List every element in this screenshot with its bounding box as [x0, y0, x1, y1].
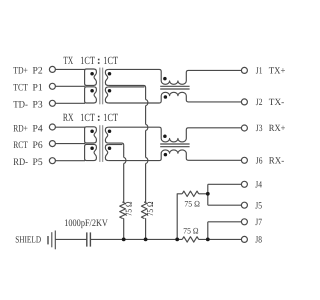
resistor R3 75 ohm (J4/J5 termination): [182, 191, 199, 196]
wire TX secondary bottom + choke L1 bottom winding + wire to J2: [109, 92, 242, 103]
wire rail to J8: [199, 238, 242, 240]
svg-text:J2: J2: [256, 98, 263, 108]
wire ground rail left section: [90, 238, 182, 240]
wire RX center tap vertical with hop: [123, 145, 125, 157]
junction node R1/rail: [122, 238, 126, 242]
svg-text:RX-: RX-: [269, 157, 284, 167]
wire TX secondary winding2 top edge: [109, 86, 145, 88]
svg-text:J5: J5: [255, 201, 262, 211]
svg-text:75 Ω: 75 Ω: [123, 201, 133, 216]
pin J1 terminal: [241, 67, 247, 73]
wire P4 to RX primary: [55, 126, 85, 128]
pin P4 terminal: [49, 124, 55, 130]
svg-text:TCT: TCT: [13, 83, 28, 94]
pin J8 terminal: [241, 236, 247, 242]
svg-text:TX: TX: [63, 55, 73, 67]
junction node R2/rail: [144, 238, 148, 242]
svg-text:RD+: RD+: [13, 123, 28, 134]
transformer T1 TX secondary winding upper bumps: [105, 69, 108, 85]
transformer T1 TX secondary winding lower bumps: [105, 87, 108, 103]
svg-text:J6: J6: [256, 157, 263, 167]
transformer T1 polarity dots: [90, 72, 111, 93]
wire P1 to TX primary center tap: [55, 85, 85, 87]
svg-text:75 Ω: 75 Ω: [183, 225, 198, 235]
svg-text:P1: P1: [33, 83, 43, 94]
transformer T2 RX secondary winding upper bumps: [105, 127, 108, 143]
svg-text:P4: P4: [33, 123, 43, 134]
wire RX secondary winding2 top edge: [109, 144, 123, 146]
pin J3 terminal: [241, 125, 247, 131]
junction node R3/J4-J5: [206, 192, 210, 196]
svg-text:P5: P5: [33, 157, 43, 168]
capacitor C1 plates: [86, 232, 88, 246]
wire P2 to TX primary: [55, 68, 85, 70]
svg-text:RX: RX: [63, 112, 74, 124]
wire to J7: [208, 221, 242, 223]
svg-text:RCT: RCT: [13, 140, 28, 151]
svg-text:TD+: TD+: [13, 66, 28, 77]
transformer T2 RX core: [100, 125, 103, 162]
shield pin 1 symbol: [47, 236, 49, 244]
wire P6 to RX primary center tap: [55, 143, 85, 145]
wire P5 to RX primary: [55, 160, 85, 162]
transformer T1 TX primary winding upper: [85, 69, 97, 85]
pin P2 terminal: [49, 66, 55, 72]
svg-text:J1: J1: [256, 67, 263, 77]
choke L2 core: [160, 143, 189, 145]
svg-text:75 Ω: 75 Ω: [184, 198, 200, 208]
junction node R4/J7: [206, 238, 210, 242]
pin P1 terminal: [49, 83, 55, 89]
transformer T1 TX core: [100, 68, 103, 105]
choke L1 polarity dots: [163, 77, 167, 81]
pin J2 terminal: [241, 99, 247, 105]
wire RX secondary bottom + choke L2 bottom winding + wire to J6: [109, 150, 242, 161]
svg-text:1CT: 1CT: [103, 112, 118, 124]
pin J7 terminal: [241, 219, 247, 225]
svg-text:P3: P3: [33, 100, 43, 111]
svg-text:RD-: RD-: [13, 157, 28, 168]
junction node R3-vertical/rail: [175, 238, 179, 242]
wire RX secondary top + choke L2 top winding + wire to J3: [109, 127, 242, 142]
wire J7 vertical: [207, 222, 209, 240]
svg-text:1CT: 1CT: [103, 55, 118, 67]
svg-text:J4: J4: [255, 181, 262, 191]
label colon TX: [98, 59, 100, 61]
transformer T2 RX primary winding lower: [85, 144, 97, 160]
choke L2 polarity dots: [163, 134, 167, 138]
svg-text:RX+: RX+: [269, 124, 286, 134]
resistor R1 75 ohm (RX center tap): [120, 202, 126, 219]
pin P6 terminal: [49, 141, 55, 147]
wire TX secondary winding1 bottom edge: [109, 86, 146, 88]
transformer T2 RX secondary winding lower bumps: [105, 145, 108, 161]
svg-text:1CT: 1CT: [80, 112, 95, 124]
svg-text:P2: P2: [33, 66, 43, 77]
wire R1 top lead joint: [122, 201, 123, 204]
transformer T2 RX primary winding upper: [85, 127, 97, 143]
resistor R2 75 ohm (TX center tap): [141, 202, 147, 219]
svg-text:TX-: TX-: [269, 98, 284, 108]
pin J4 terminal: [241, 181, 247, 187]
wire R2 top lead joint: [144, 201, 145, 204]
svg-text:TX+: TX+: [269, 67, 286, 77]
svg-text:SHIELD: SHIELD: [15, 236, 41, 246]
resistor R4 75 ohm (J7/J8 termination, in-line): [182, 237, 199, 242]
transformer T2 polarity dots: [90, 130, 111, 150]
wire to J4: [208, 183, 242, 185]
wire R1 to ground rail: [122, 217, 125, 220]
svg-text:TD-: TD-: [13, 100, 28, 111]
wire TX center tap vertical with hops: [145, 88, 147, 100]
wire P3 to TX primary: [55, 102, 85, 104]
wire RX secondary winding1 bottom edge: [109, 143, 124, 145]
svg-text:J3: J3: [256, 124, 263, 134]
wire R3 left lead + vertical to rail: [177, 194, 182, 240]
svg-text:J8: J8: [255, 236, 262, 246]
label colon RX: [98, 116, 100, 118]
wire R2 to ground rail: [144, 217, 147, 220]
wire to J5: [208, 204, 242, 206]
pin P3 terminal: [49, 100, 55, 106]
choke L1 core: [160, 85, 189, 87]
pin P5 terminal: [49, 158, 55, 164]
wire TX secondary top + choke L1 top winding + wire to J1: [109, 69, 242, 84]
wire shield to C1: [55, 238, 87, 240]
pin J5 terminal: [241, 202, 247, 208]
svg-text:1000pF/2KV: 1000pF/2KV: [64, 218, 108, 229]
transformer T1 TX primary winding lower: [85, 87, 97, 103]
pin J6 terminal: [241, 157, 247, 163]
svg-text:75 Ω: 75 Ω: [145, 201, 155, 216]
wire R3 right lead: [199, 193, 208, 195]
svg-text:P6: P6: [33, 140, 43, 151]
svg-text:1CT: 1CT: [80, 55, 95, 67]
svg-text:J7: J7: [255, 218, 262, 228]
wire J4/J5 tie vertical: [207, 184, 209, 205]
